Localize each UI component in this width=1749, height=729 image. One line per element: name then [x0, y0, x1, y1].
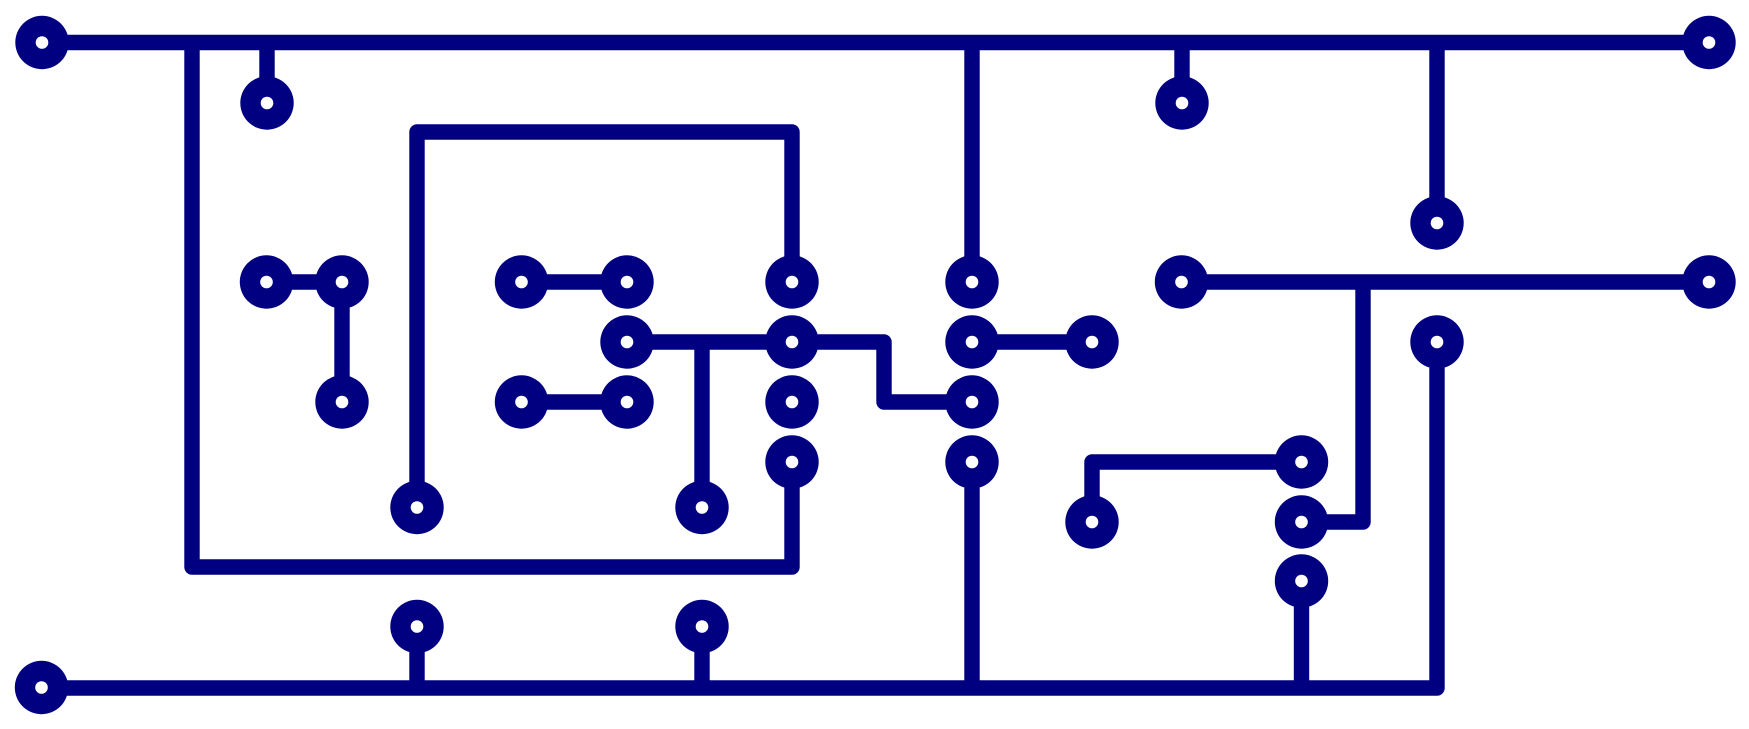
- wire stem to pad P2: [259, 43, 274, 104]
- pad hole P4: [1703, 36, 1716, 49]
- pad P21: [600, 375, 653, 428]
- pad hole P21: [621, 396, 634, 409]
- pad P2: [240, 76, 293, 129]
- pad hole P9: [515, 276, 528, 289]
- pad P11: [765, 255, 818, 308]
- pad hole P20: [515, 396, 528, 409]
- wire bottom rail up to pad P19: [41, 342, 1437, 688]
- wire stem P33 to bottom rail: [694, 627, 709, 689]
- pad P8: [315, 375, 368, 428]
- pad P28: [1275, 495, 1328, 548]
- pad P19: [1410, 315, 1463, 368]
- wire branch down to pad P30: [694, 342, 709, 508]
- pad hole P18: [1086, 336, 1099, 349]
- wire P20 to P21: [522, 394, 628, 409]
- pad hole P19: [1431, 336, 1444, 349]
- pad hole P27: [1086, 516, 1099, 529]
- pad P6: [240, 255, 293, 308]
- wire left vertical bus with bottom jog to pad P24: [192, 43, 792, 568]
- pad P16: [765, 315, 818, 368]
- wire P7 to P8: [334, 282, 349, 402]
- pad P25: [945, 435, 998, 488]
- pad P30: [675, 481, 728, 534]
- pad hole P16: [786, 336, 799, 349]
- pad P14: [1682, 255, 1735, 308]
- wire P9 to P10: [522, 274, 628, 289]
- pad hole P17: [966, 336, 979, 349]
- pad P33: [675, 600, 728, 653]
- pad P23: [945, 375, 998, 428]
- pad P9: [495, 255, 548, 308]
- pad P1: [15, 16, 68, 69]
- pad hole P11: [786, 276, 799, 289]
- pad hole P28: [1295, 516, 1308, 529]
- pad P27: [1065, 495, 1118, 548]
- pad P22: [765, 375, 818, 428]
- pad P3: [1155, 76, 1208, 129]
- pad P18: [1065, 315, 1118, 368]
- pad hole P22: [786, 396, 799, 409]
- wire stem P32 to bottom rail: [409, 627, 424, 689]
- pad hole P30: [696, 501, 709, 514]
- pad P26: [1275, 435, 1328, 488]
- pad hole P32: [411, 620, 424, 633]
- pad hole P13: [1175, 276, 1188, 289]
- wire P31 down to bottom rail: [1294, 581, 1309, 688]
- wire right rail P13 to P14: [1182, 274, 1710, 289]
- pad hole P29: [411, 501, 424, 514]
- pad hole P15: [621, 336, 634, 349]
- pad P4: [1682, 16, 1735, 69]
- pad hole P6: [260, 276, 273, 289]
- pad hole P31: [1295, 575, 1308, 588]
- wire P25 down to bottom rail: [964, 462, 979, 688]
- pad P15: [600, 315, 653, 368]
- pad P10: [600, 255, 653, 308]
- pad hole P2: [261, 97, 274, 110]
- wire vertical from right rail with jog to pad P28: [1302, 282, 1364, 522]
- pad P7: [315, 255, 368, 308]
- pad hole P12: [966, 276, 979, 289]
- pad P34: [15, 661, 68, 714]
- wire vertical to pad P12: [964, 43, 979, 283]
- pad P12: [945, 255, 998, 308]
- pad hole P26: [1295, 456, 1308, 469]
- pad P20: [495, 375, 548, 428]
- pad hole P1: [36, 36, 49, 49]
- pad hole P7: [336, 276, 349, 289]
- wire P15 through P16 with jog down to P23: [627, 342, 972, 402]
- wire stem to pad P5: [1429, 43, 1444, 224]
- wire P27 up and right to pad P26: [1092, 462, 1302, 522]
- pad P13: [1155, 255, 1208, 308]
- pad P32: [390, 600, 443, 653]
- pad hole P25: [966, 456, 979, 469]
- pad P31: [1275, 554, 1328, 607]
- pad hole P34: [35, 681, 48, 694]
- pad P29: [390, 481, 443, 534]
- pad hole P5: [1431, 217, 1444, 230]
- pad P17: [945, 315, 998, 368]
- wire big rectangle from P29 up over to P11: [417, 132, 792, 508]
- pad hole P33: [696, 620, 709, 633]
- pad hole P10: [621, 276, 634, 289]
- wire top rail: [42, 35, 1709, 50]
- wire P17 to P18: [972, 334, 1092, 349]
- pad P24: [765, 435, 818, 488]
- pad hole P24: [786, 456, 799, 469]
- wire stem to pad P3: [1174, 43, 1189, 104]
- pad P5: [1410, 196, 1463, 249]
- pad hole P8: [336, 396, 349, 409]
- pad hole P3: [1176, 97, 1189, 110]
- wire P6 to P7: [267, 274, 343, 289]
- pad hole P23: [966, 396, 979, 409]
- pad hole P14: [1703, 276, 1716, 289]
